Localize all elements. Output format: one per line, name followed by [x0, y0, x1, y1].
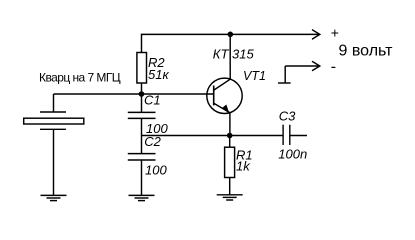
svg-text:9 вольт: 9 вольт: [339, 43, 394, 60]
svg-text:100: 100: [145, 163, 167, 178]
ground (below C2): [129, 195, 155, 200]
crystal ZQ1 quartz 7MHz: [24, 112, 84, 129]
svg-text:100n: 100n: [278, 147, 307, 162]
svg-text:C1: C1: [144, 92, 161, 107]
svg-text:+: +: [331, 24, 339, 40]
wire crystal top lead: [53, 94, 55, 112]
ground (below crystal): [41, 195, 67, 200]
wire emitter rail: [142, 135, 283, 137]
minus terminal tap symbol: [278, 66, 291, 83]
wire R2 to C1: [141, 83, 143, 112]
transistor VT1 KT315 npn: [207, 78, 242, 113]
wire C3 output: [290, 135, 307, 137]
node junction dot top rail/collector: [228, 32, 234, 38]
capacitor C1: [128, 112, 156, 118]
resistor R1: [225, 147, 235, 177]
svg-text:КТ 315: КТ 315: [213, 46, 255, 61]
ground (below R1): [217, 195, 243, 200]
svg-text:C3: C3: [279, 109, 296, 124]
arrow +9V terminal: [312, 30, 320, 40]
node junction dot base node: [139, 91, 145, 97]
svg-text:51к: 51к: [148, 67, 169, 82]
svg-text:C2: C2: [144, 134, 161, 149]
svg-text:VT1: VT1: [243, 69, 266, 83]
svg-text:1k: 1k: [236, 158, 251, 173]
capacitor C2: [128, 154, 156, 160]
wire C1 to C2: [141, 118, 143, 153]
wire base rail (crystal to transistor base): [54, 93, 214, 95]
wire crystal bottom lead: [53, 129, 55, 195]
wire emitter drop: [229, 113, 231, 136]
resistor R2: [137, 53, 147, 84]
capacitor C3: [283, 125, 290, 145]
wire R1 to ground: [229, 178, 231, 195]
svg-text:Кварц на 7 МГЦ: Кварц на 7 МГЦ: [39, 70, 121, 84]
arrow minus terminal: [312, 61, 320, 71]
wire C2 to ground: [141, 160, 143, 195]
wire collector drop: [229, 34, 231, 79]
wire emitter junction to R1: [229, 136, 231, 148]
svg-text:-: -: [331, 59, 336, 76]
node junction dot emitter rail: [227, 133, 233, 139]
wire top rail (+9V): [142, 34, 320, 52]
wire minus lead: [285, 65, 319, 67]
